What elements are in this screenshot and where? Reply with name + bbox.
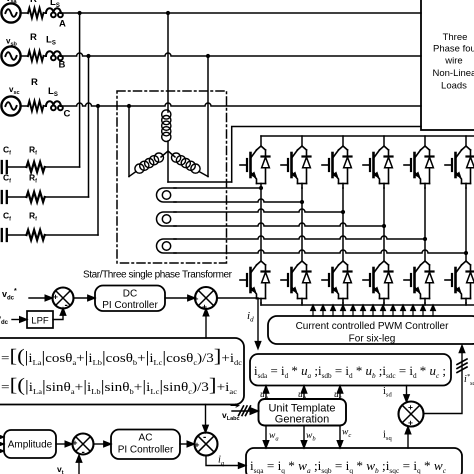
- svg-text:isq: isq: [383, 430, 392, 443]
- wire: [44, 12, 47, 14]
- unit template generation box: [259, 399, 347, 426]
- wire S4 output iq to isq box with arrow: [206, 456, 239, 466]
- svg-text:+: +: [53, 292, 58, 302]
- wire vt up to S3 with arrow: [78, 462, 80, 474]
- node leg4 midpoint: [382, 224, 386, 228]
- leg2 top stub: [301, 136, 303, 146]
- svg-text:R: R: [30, 32, 37, 43]
- node leg2 midpoint: [300, 200, 304, 204]
- summer S4 iq: [195, 433, 218, 456]
- svg-text:wb: wb: [306, 431, 316, 443]
- IGBT Q9 bottom leg3: [322, 261, 352, 303]
- transformer primary vertical winding: [162, 110, 171, 142]
- wire dc top rail: [261, 135, 474, 137]
- amplitude box: [4, 430, 56, 458]
- svg-text:R: R: [31, 77, 38, 88]
- current controlled PWM controller box: [268, 316, 474, 344]
- leg2 midpoint vertical: [301, 188, 303, 261]
- svg-text:LS: LS: [50, 0, 60, 9]
- wire w_c arrow: [339, 426, 341, 442]
- wire vdc to LPF with arrow: [12, 319, 20, 321]
- wire L4 coil2 bottom to leg4 midpoint: [174, 223, 384, 226]
- svg-text:i*sa: i*sa: [464, 373, 474, 387]
- svg-text:isqa = iq * wa ;isqb = iq * wb: isqa = iq * wa ;isqb = iq * wb ;isqc = i…: [250, 459, 447, 474]
- IGBT Q2 top leg2: [281, 146, 311, 188]
- svg-text:B: B: [59, 60, 66, 71]
- IGBT Q11 bottom leg5: [404, 261, 434, 303]
- wire: [7, 166, 27, 168]
- inductor Ls phase c: [46, 101, 63, 110]
- transformer boundary dashed box: [117, 91, 227, 263]
- wire phase B down to transformer right winding: [207, 56, 209, 177]
- svg-text:-: -: [203, 432, 206, 443]
- wire left winding terminal: [129, 172, 136, 177]
- svg-text:Rf: Rf: [29, 145, 37, 157]
- node leg3 midpoint: [341, 210, 345, 214]
- transformer primary left winding: [135, 153, 164, 173]
- summer S3 ac: [73, 434, 94, 455]
- svg-text:-: -: [65, 300, 68, 311]
- svg-text:Three: Three: [443, 32, 468, 43]
- svg-text:isda = id * ua ;isdb = id * ub: isda = id * ua ;isdb = id * ub ;isdc = i…: [254, 364, 446, 380]
- wire phase C down to transformer left winding: [128, 106, 130, 177]
- svg-text:Cf: Cf: [3, 211, 11, 223]
- wire DC PI to S2 with arrow: [165, 297, 188, 299]
- wire L3 coil2 top to leg3 midpoint: [174, 209, 343, 212]
- chevron inputs to amplitude box: [0, 434, 4, 453]
- resistor Rf branch 2: [27, 192, 45, 202]
- leg1 top stub: [260, 136, 262, 146]
- IGBT Q3 top leg3: [322, 146, 352, 188]
- wire: [44, 55, 47, 57]
- leg5 top stub: [424, 136, 426, 146]
- leg6 top stub: [465, 136, 467, 146]
- capacitor Cf branch 1: [2, 161, 7, 173]
- svg-text:vdc*: vdc*: [2, 288, 17, 302]
- svg-text:iq: iq: [218, 455, 225, 468]
- wire vLabc to UTG with slashes and arrow: [232, 410, 250, 412]
- node leg5 midpoint: [423, 237, 427, 241]
- svg-text:DC: DC: [123, 289, 137, 300]
- svg-text:=[(|iLa|sinθa+|iLb|sinθb+|iLc|: =[(|iLa|sinθa+|iLb|sinθb+|iLc|sinθc)/3]+…: [1, 375, 237, 396]
- inductor Ls phase a: [46, 8, 63, 17]
- svg-text:PI Controller: PI Controller: [102, 300, 158, 311]
- svg-text:A: A: [59, 19, 66, 30]
- wire S3 to AC PI with arrow: [94, 443, 105, 445]
- node star point split: [161, 151, 175, 157]
- IGBT Q10 bottom leg4: [363, 261, 393, 303]
- leg4 top stub: [383, 136, 385, 146]
- IGBT Q4 top leg4: [363, 146, 393, 188]
- IGBT Q12 bottom leg6: [445, 261, 474, 303]
- svg-text:+: +: [195, 440, 200, 450]
- wire star point to neutral riser: [168, 181, 232, 183]
- svg-text:wa: wa: [269, 431, 279, 443]
- wire w_a arrow UTG to isq box: [265, 426, 267, 442]
- node phase A transformer tap: [166, 11, 170, 15]
- summer S1 vdc: [53, 288, 74, 309]
- three phase four wire non-linear loads box: [421, 0, 474, 130]
- svg-text:Cf: Cf: [3, 145, 11, 157]
- wire filter drop phase a: [79, 13, 81, 167]
- svg-text:Rf: Rf: [29, 173, 37, 185]
- svg-text:Phase four: Phase four: [433, 44, 474, 55]
- LPF box: [27, 311, 53, 328]
- leg1 midpoint vertical: [260, 188, 262, 261]
- equation box i_d i_q extraction: [0, 338, 244, 405]
- svg-text:Cf: Cf: [3, 173, 11, 185]
- secondary coil 2 end: [157, 212, 177, 226]
- wire neutral riser and neutral line to loads: [232, 127, 421, 183]
- svg-text:C: C: [64, 109, 71, 120]
- svg-text:LPF: LPF: [31, 316, 49, 327]
- IGBT Q1 top leg1: [240, 146, 270, 188]
- svg-text:Loads: Loads: [441, 81, 467, 92]
- wire S2 to leg1 bottom: [217, 297, 258, 300]
- AC PI controller box: [111, 430, 180, 460]
- svg-text:R: R: [30, 0, 37, 5]
- wire S1 to DC PI with arrow: [74, 297, 89, 299]
- phase C line with hops: [61, 103, 421, 106]
- svg-text:+: +: [408, 418, 413, 428]
- wire L6 coil3 bottom to leg6 midpoint: [174, 250, 466, 253]
- svg-text:Amplitude: Amplitude: [8, 440, 53, 451]
- wire equation box to S2 with arrow: [205, 315, 207, 338]
- wire S5 output to PWM controller with slashes and arrow: [424, 353, 463, 414]
- svg-text:Non-Linear: Non-Linear: [433, 68, 474, 79]
- wire filter drop phase b: [88, 56, 90, 197]
- wire vsb to R: [21, 55, 28, 57]
- svg-text:vsc: vsc: [9, 85, 20, 96]
- summer S5 isd isq: [399, 402, 424, 427]
- leg5 midpoint vertical: [424, 188, 426, 261]
- inductor Ls phase b: [46, 51, 63, 60]
- node leg1 midpoint: [259, 186, 263, 190]
- wire star stem down to star point: [167, 110, 169, 182]
- vector arrow over vLabc: [231, 404, 239, 407]
- summer S2 id: [195, 287, 217, 309]
- leg3 midpoint vertical: [342, 188, 344, 261]
- wire u_c arrow: [339, 393, 341, 400]
- svg-text:PI Controller: PI Controller: [118, 445, 174, 456]
- svg-text:Current controlled PWM Control: Current controlled PWM Controller: [296, 321, 449, 332]
- svg-text:Rf: Rf: [29, 211, 37, 223]
- wire vsc to R: [21, 105, 28, 107]
- wire: [44, 105, 47, 107]
- wire L1 coil1 top to leg1 midpoint: [174, 187, 261, 189]
- wire u_a arrow UTG to isd box: [265, 393, 267, 400]
- wire filter drop phase c: [97, 106, 99, 235]
- wire: [7, 234, 27, 236]
- source vsc: [1, 96, 20, 115]
- node leg6 midpoint: [464, 251, 468, 255]
- node phase B transformer tap: [206, 54, 210, 58]
- svg-text:LS: LS: [48, 86, 58, 98]
- svg-text:For six-leg: For six-leg: [349, 334, 396, 345]
- leg4 midpoint vertical: [383, 188, 385, 261]
- wire to phase c drop: [45, 234, 98, 236]
- IGBT Q7 bottom leg1: [240, 261, 270, 303]
- wire L5 coil3 top to leg5 midpoint: [174, 236, 425, 239]
- isq multiplication box: [246, 448, 462, 474]
- wire L2 coil1 bottom to leg2 midpoint: [174, 199, 302, 202]
- node phase B filter tap: [86, 54, 90, 58]
- source vsa: [1, 3, 20, 22]
- svg-text:+: +: [194, 294, 199, 304]
- wire: [7, 196, 27, 198]
- secondary coil 3 end: [157, 239, 177, 253]
- IGBT Q6 top leg6: [445, 146, 474, 188]
- DC PI controller box: [95, 286, 165, 312]
- wire u_b arrow: [303, 393, 305, 400]
- phase A line: [61, 12, 421, 14]
- wire isq up to S5 with arrow: [407, 434, 409, 449]
- svg-text:+: +: [408, 402, 413, 412]
- wire AC PI to S4 with arrow: [180, 443, 188, 445]
- wire w_b arrow: [303, 426, 305, 442]
- isd multiplication box: [250, 354, 451, 386]
- svg-text:vLabc: vLabc: [222, 410, 240, 422]
- wire amplitude to S3 with arrow: [56, 443, 66, 445]
- svg-text:id: id: [247, 310, 254, 324]
- node phase C transformer tap: [127, 104, 131, 108]
- node phase A filter tap: [78, 11, 82, 15]
- IGBT Q8 bottom leg2: [281, 261, 311, 303]
- IGBT Q5 top leg5: [404, 146, 434, 188]
- transformer primary right winding: [172, 153, 201, 173]
- resistor Rf branch 1: [27, 162, 45, 172]
- svg-text:+: +: [73, 438, 78, 448]
- wire dc bottom rail: [261, 304, 474, 306]
- svg-text:=[(|iLa|cosθa+|iLb|cosθb+|iLc|: =[(|iLa|cosθa+|iLb|cosθb+|iLc|cosθc)/3]+…: [1, 346, 242, 367]
- svg-text:wire: wire: [444, 56, 462, 67]
- leg3 top stub: [342, 136, 344, 146]
- svg-text:vdc: vdc: [0, 314, 9, 327]
- svg-text:isd: isd: [383, 386, 392, 399]
- svg-text:LS: LS: [46, 35, 56, 47]
- wire eq box bottom to S4 with arrow: [205, 405, 207, 427]
- phase B line with hops: [61, 53, 421, 56]
- secondary coil 1 end: [157, 188, 177, 202]
- wire isd down to S5 with arrow: [406, 386, 408, 396]
- svg-text:vt: vt: [57, 464, 64, 474]
- node phase C filter tap: [96, 104, 100, 108]
- wire to phase b drop: [45, 196, 89, 198]
- svg-text:Star/Three single phase Transf: Star/Three single phase Transformer: [83, 270, 233, 281]
- wire phase A down to transformer: [167, 13, 169, 110]
- svg-text:-: -: [82, 447, 85, 458]
- wire right winding terminal: [199, 172, 208, 177]
- wire to phase a drop: [45, 166, 80, 168]
- resistor Rf branch 3: [27, 230, 45, 240]
- resistor R phase a: [28, 8, 43, 18]
- svg-text:AC: AC: [139, 433, 153, 444]
- svg-text:+: +: [202, 302, 207, 312]
- capacitor Cf branch 2: [2, 191, 7, 203]
- wire LPF up to S1 with arrow: [53, 315, 63, 320]
- capacitor Cf branch 3: [2, 229, 7, 241]
- source vsb: [1, 46, 20, 65]
- wire id down to isd box with arrow: [257, 299, 259, 342]
- PWM gate pulse arrows: [311, 305, 436, 316]
- wire vsa to R: [21, 12, 28, 14]
- resistor R phase b: [28, 51, 43, 61]
- svg-text:wc: wc: [342, 428, 351, 440]
- resistor R phase c: [28, 101, 43, 111]
- svg-text:Generation: Generation: [275, 414, 329, 426]
- wire vdcref to S1 with arrow: [29, 297, 45, 299]
- leg6 midpoint vertical: [465, 188, 467, 261]
